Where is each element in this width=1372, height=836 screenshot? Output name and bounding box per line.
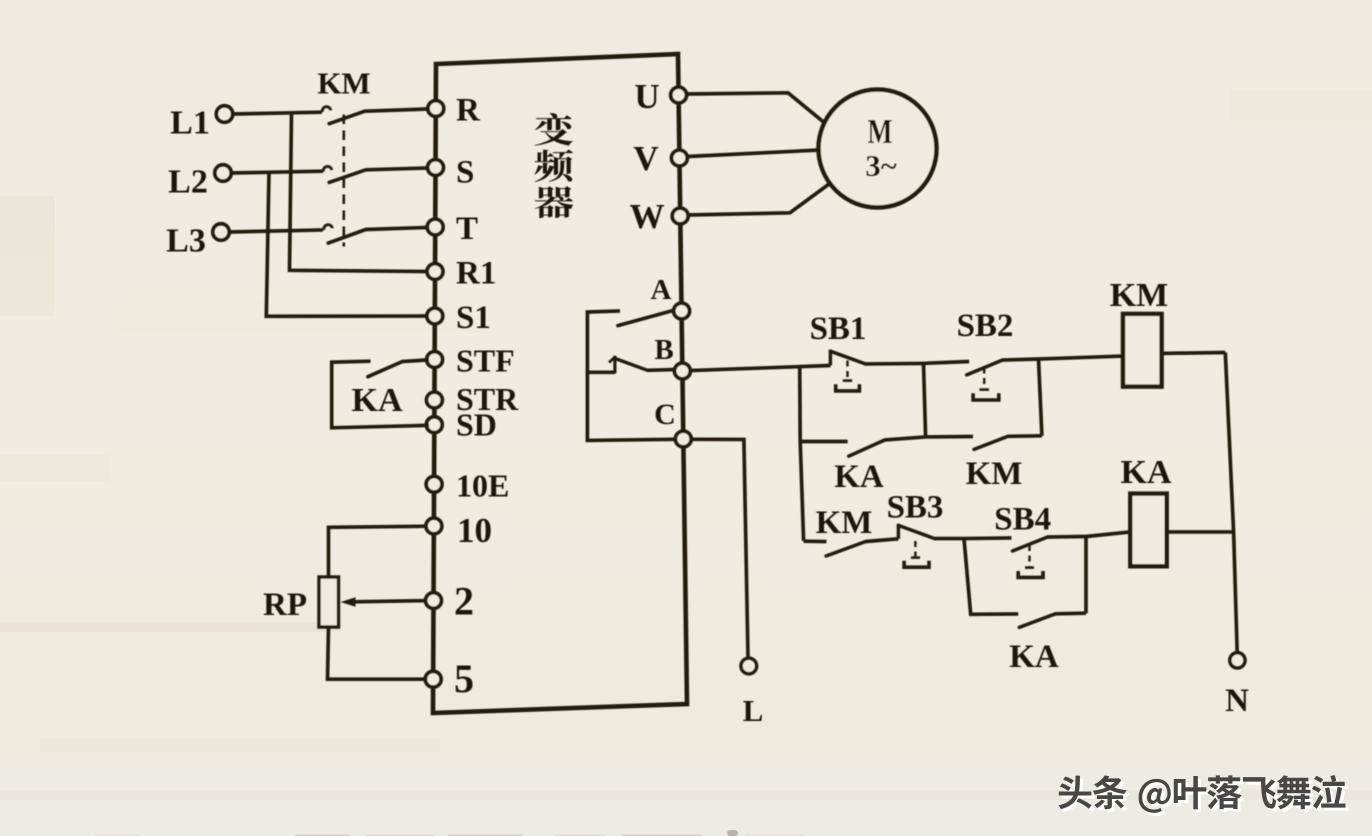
wire SB4 to KA coil — [1086, 532, 1130, 537]
wire L2 to KM contact — [231, 171, 323, 173]
row4 right riser — [1084, 537, 1088, 614]
terminal L — [741, 658, 757, 674]
terminal S — [428, 160, 444, 176]
selector tick and blade to B — [587, 356, 676, 374]
terminal A — [674, 303, 690, 319]
KA blade — [368, 362, 402, 377]
potentiometer RP body — [319, 577, 339, 627]
cropped next-line fragments at bottom edge — [95, 830, 805, 836]
terminal W — [672, 208, 688, 224]
bypass contact KA (row4) — [1019, 613, 1086, 627]
svg-text:SB3: SB3 — [887, 490, 944, 526]
bottom light band — [0, 762, 1372, 836]
terminal S1 — [427, 308, 443, 324]
svg-text:KM: KM — [816, 505, 873, 541]
contactor KM main contact 3 — [324, 225, 427, 243]
svg-text:W: W — [630, 197, 665, 236]
terminal R1 — [427, 264, 443, 280]
wire SB3 to SB4 — [964, 536, 1011, 540]
svg-text:KA: KA — [1121, 454, 1172, 491]
row4 left drop — [964, 539, 1018, 615]
terminal T — [427, 219, 443, 235]
svg-text:S1: S1 — [456, 300, 491, 336]
svg-text:10: 10 — [457, 511, 492, 550]
stop button SB1 (NC) — [830, 350, 923, 391]
svg-text:L: L — [743, 693, 764, 728]
terminal L2 — [215, 165, 231, 181]
row2 right riser — [1039, 359, 1042, 436]
wire L1 branch to R1 — [290, 113, 428, 272]
label 变频器 — [535, 113, 574, 218]
relay contact KA (STF) bracket — [332, 361, 429, 428]
wire KM coil to right rail — [1162, 351, 1226, 356]
svg-text:KM: KM — [317, 66, 370, 101]
left rail from B-wire down to row3 — [800, 366, 804, 541]
svg-text:L2: L2 — [168, 164, 208, 201]
contactor KM main contact 2 — [323, 166, 427, 182]
terminal V — [672, 150, 688, 166]
hold contact KM (row2) — [926, 436, 1042, 450]
svg-text:L3: L3 — [166, 223, 206, 260]
terminal STF — [427, 352, 443, 368]
terminal 5 — [425, 671, 441, 687]
inverter box (变频器) — [433, 54, 687, 713]
start button SB2 (NO) — [967, 359, 1039, 400]
terminal B — [675, 363, 691, 379]
svg-text:A: A — [651, 274, 672, 306]
svg-text:3~: 3~ — [865, 148, 897, 183]
junction drop SB1/SB2 to row2 — [924, 363, 926, 437]
svg-text:SD: SD — [456, 407, 497, 443]
svg-text:SB2: SB2 — [957, 308, 1014, 344]
contactor coil KM — [1123, 314, 1162, 387]
RP bottom lead to 5 — [328, 627, 427, 679]
svg-text:C: C — [654, 398, 676, 431]
svg-text:T: T — [456, 211, 478, 247]
terminal U — [671, 87, 687, 103]
wire L2 branch to S1 — [266, 172, 427, 316]
terminal L1 — [216, 106, 232, 122]
svg-text:2: 2 — [454, 579, 474, 624]
svg-text:N: N — [1225, 683, 1249, 719]
KM linkage dashed line — [342, 115, 345, 247]
terminal 10 — [426, 518, 442, 534]
selector bracket (A/B/C) — [587, 311, 676, 441]
terminal C — [675, 431, 691, 447]
KA lead to STF — [402, 360, 429, 362]
svg-text:V: V — [633, 139, 658, 178]
terminal 10E — [426, 476, 442, 492]
start button SB4 (NO) — [1013, 537, 1087, 578]
interlock contact KM (row3) — [804, 539, 899, 556]
svg-text:R1: R1 — [456, 256, 496, 292]
svg-text:5: 5 — [454, 656, 474, 701]
terminal SD — [426, 417, 442, 433]
motor M 3~ — [819, 90, 937, 208]
svg-text:KM: KM — [1110, 277, 1169, 314]
selector blade to A — [618, 310, 674, 325]
svg-text:SB1: SB1 — [810, 311, 867, 347]
svg-text:KA: KA — [352, 382, 403, 419]
wire KA coil to right rail — [1167, 530, 1234, 534]
wire V to motor — [688, 150, 820, 157]
self-hold contact KA — [800, 437, 925, 456]
wire L3 to KM contact — [229, 230, 323, 232]
svg-text:M: M — [868, 112, 893, 151]
terminal R — [428, 101, 444, 117]
svg-text:S: S — [456, 155, 474, 191]
svg-text:RP: RP — [263, 587, 307, 623]
terminal L3 — [213, 224, 229, 240]
svg-text:R: R — [456, 93, 481, 129]
svg-text:10E: 10E — [456, 467, 509, 503]
wire C to terminal L — [691, 439, 749, 658]
contactor KM main contact 1 — [322, 107, 427, 124]
svg-text:STF: STF — [456, 343, 515, 379]
svg-text:KM: KM — [966, 456, 1023, 492]
RP top lead to 10 — [329, 526, 429, 577]
wire U to motor — [687, 93, 825, 123]
wire L1 to KM contact — [233, 112, 322, 114]
wire SB1 to SB2 — [924, 362, 970, 364]
wire SB2 to KM coil — [1039, 356, 1124, 359]
right rail to N — [1225, 353, 1237, 654]
terminal 2 — [426, 593, 442, 609]
svg-text:B: B — [654, 334, 673, 366]
watermark 头条@叶落飞舞泣 — [1058, 775, 1348, 816]
stop button SB3 (NC) — [898, 524, 964, 567]
wire B to SB1 — [690, 366, 830, 371]
relay coil KA — [1130, 494, 1166, 567]
wire W to motor — [688, 184, 830, 215]
RP wiper arrow to 2 — [354, 601, 428, 602]
terminal STR — [427, 392, 443, 408]
svg-text:KA: KA — [834, 459, 884, 495]
svg-text:L1: L1 — [170, 105, 210, 142]
terminal N — [1230, 653, 1245, 668]
svg-text:KA: KA — [1009, 639, 1059, 675]
svg-text:U: U — [634, 77, 659, 116]
svg-text:SB4: SB4 — [994, 502, 1051, 538]
